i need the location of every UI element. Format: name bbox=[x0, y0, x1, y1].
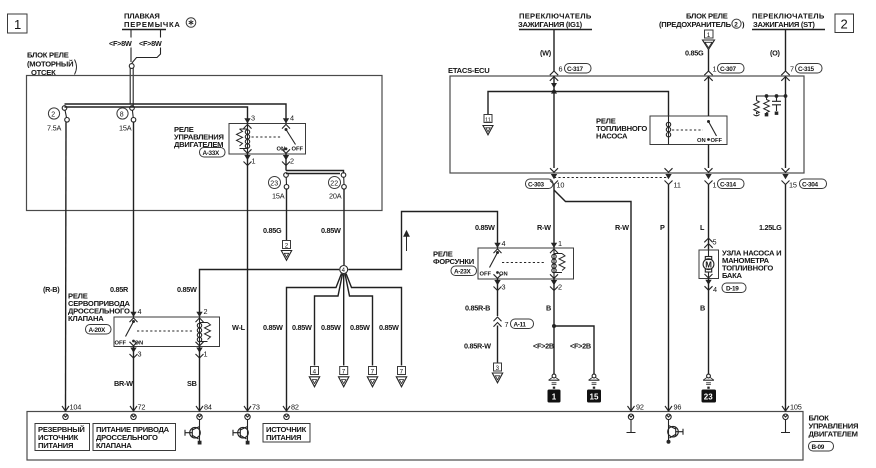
op engine control relay U1 box bbox=[229, 124, 306, 155]
svg-text:3: 3 bbox=[502, 283, 506, 292]
svg-text:OFF: OFF bbox=[292, 147, 304, 153]
pin 6 C-317 bbox=[559, 64, 592, 74]
fuse 23 (15A) bbox=[269, 173, 289, 201]
svg-text:96: 96 bbox=[674, 403, 682, 412]
fuse 1 connector symbol bbox=[703, 30, 715, 50]
svg-text:ПЕРЕМЫЧКА: ПЕРЕМЫЧКА bbox=[124, 20, 181, 29]
wire label 0.85G bbox=[685, 49, 704, 58]
ground ref box 23 bbox=[702, 390, 717, 403]
svg-text:БЛОК РЕЛЕ: БЛОК РЕЛЕ bbox=[27, 51, 69, 60]
resistor R1 (ETACS) bbox=[754, 101, 760, 116]
terminal crossing C-315 into ETACS bbox=[781, 71, 789, 81]
wire fuse bus 23-22 upper bbox=[286, 171, 344, 174]
resistor R2 (ETACS) bbox=[764, 94, 770, 116]
pin 11 label bbox=[674, 181, 681, 190]
wire connector 7 down to triangle 3 (0.85R-W) bbox=[497, 326, 499, 363]
svg-text:105: 105 bbox=[790, 403, 802, 412]
svg-text:92: 92 bbox=[636, 403, 644, 412]
svg-text:M: M bbox=[705, 260, 712, 269]
terminal crossing pin11 out of ETACS bbox=[665, 168, 673, 184]
wire injector pin3 down (0.85R-B) bbox=[497, 279, 499, 316]
svg-text:6: 6 bbox=[559, 65, 563, 74]
svg-text:73: 73 bbox=[252, 403, 260, 412]
svg-text:0.85R: 0.85R bbox=[110, 285, 129, 294]
label relay box fuse 2 bbox=[659, 12, 745, 30]
pin 72 terminal bbox=[130, 403, 145, 420]
connector triangle 7c bbox=[396, 367, 406, 387]
svg-text:0.85W: 0.85W bbox=[263, 323, 283, 332]
page marker 1 bbox=[8, 14, 28, 33]
svg-text:НАСОСА: НАСОСА bbox=[596, 132, 628, 141]
svg-text:1: 1 bbox=[204, 350, 208, 359]
svg-text:R-W: R-W bbox=[537, 223, 551, 232]
svg-text:23: 23 bbox=[704, 393, 713, 402]
label fusible link (ПЛАВКАЯ ПЕРЕМЫЧКА) bbox=[124, 12, 196, 30]
wire C-315 inside ETACS down bbox=[785, 76, 787, 168]
svg-text:15: 15 bbox=[789, 181, 797, 190]
svg-text:P: P bbox=[660, 223, 665, 232]
svg-text:20A: 20A bbox=[329, 192, 342, 201]
svg-text:ETACS-ECU: ETACS-ECU bbox=[448, 66, 490, 75]
svg-text:15A: 15A bbox=[272, 192, 285, 201]
svg-text:8: 8 bbox=[120, 112, 124, 119]
wire ST down to ETACS pin7 C-315 (O) bbox=[785, 30, 787, 72]
terminal pin2 throttle relay bbox=[196, 307, 208, 322]
transistor Q1 (pin 84 driver) bbox=[185, 419, 202, 445]
wire fuse bus 23-22 lower bbox=[286, 173, 340, 175]
label ignition switch ST bbox=[752, 12, 825, 30]
switch engine relay bbox=[277, 128, 304, 153]
terminal pin4 throttle relay bbox=[130, 307, 142, 322]
svg-text:D-19: D-19 bbox=[726, 285, 739, 292]
svg-text:1: 1 bbox=[558, 239, 562, 248]
node dot RC tap bbox=[784, 94, 788, 98]
svg-text:7: 7 bbox=[790, 65, 794, 74]
relay throttle servo box bbox=[114, 317, 220, 347]
svg-text:0.85R-W: 0.85R-W bbox=[464, 342, 491, 351]
svg-text:0.85W: 0.85W bbox=[321, 226, 341, 235]
wire throttle pin1 to pin84 (SB) bbox=[199, 347, 201, 412]
wire fuse to ETACS pin1 C-307 (0.85G) bbox=[708, 50, 710, 72]
relay coil with resistor (engine relay) bbox=[237, 124, 250, 155]
node dot at coil branch bbox=[552, 90, 556, 94]
fuse 22 (20A) bbox=[329, 173, 347, 201]
relay fuel pump box bbox=[650, 116, 727, 145]
connector name A-23X bbox=[451, 266, 477, 276]
connector triangle 7b bbox=[367, 367, 377, 387]
svg-text:ON: ON bbox=[499, 272, 508, 278]
wire label 0.85W row1 bbox=[263, 323, 283, 332]
relay coil fuel pump bbox=[666, 116, 670, 145]
svg-text:3: 3 bbox=[138, 350, 142, 359]
svg-text:0.85W: 0.85W bbox=[350, 323, 370, 332]
svg-text:0.85W: 0.85W bbox=[292, 323, 312, 332]
dashed actuator line injector relay bbox=[502, 262, 546, 264]
svg-text:4: 4 bbox=[313, 368, 317, 375]
wire RC bus bbox=[757, 96, 786, 101]
svg-text:ЗАЖИГАНИЯ (ST): ЗАЖИГАНИЯ (ST) bbox=[753, 20, 815, 29]
wire branch to conn11 and pump relay coil bbox=[488, 92, 669, 117]
svg-text:B: B bbox=[700, 304, 705, 313]
connector name A-20X bbox=[86, 325, 112, 335]
pin 1 C-314 bbox=[713, 179, 745, 190]
wire C-304 down to ECU pin105 (1.25LG) bbox=[785, 185, 787, 412]
wire label F2B a bbox=[533, 342, 554, 351]
wire label P bbox=[660, 223, 665, 232]
label fuel pump relay bbox=[596, 117, 647, 141]
dashed connector linking line bbox=[554, 177, 669, 179]
value label F8W a bbox=[108, 38, 132, 48]
fuse 8 (15A) bbox=[117, 106, 136, 133]
svg-text:1: 1 bbox=[552, 393, 557, 402]
svg-text:C-315: C-315 bbox=[798, 66, 814, 73]
ground ref box 1 bbox=[548, 390, 561, 403]
connector triangle 4 bbox=[309, 367, 319, 387]
switch throttle relay bbox=[115, 320, 144, 347]
fuse 2 (7.5A) bbox=[47, 106, 69, 133]
svg-text:11: 11 bbox=[485, 117, 491, 123]
battery feed bar bbox=[122, 29, 166, 31]
svg-text:5: 5 bbox=[713, 238, 717, 247]
svg-text:0.85W: 0.85W bbox=[177, 285, 197, 294]
svg-text:ДВИГАТЕЛЕМ: ДВИГАТЕЛЕМ bbox=[809, 430, 858, 439]
wire node4 fan to triangle conn 7b bbox=[345, 274, 373, 366]
terminal joint of fusible links bbox=[129, 64, 134, 69]
svg-text:7: 7 bbox=[371, 368, 375, 375]
terminal pin1 injector relay bbox=[550, 239, 562, 253]
terminal pin4 engine relay bbox=[282, 114, 294, 129]
pin 105 terminal bbox=[782, 403, 802, 420]
svg-text:1: 1 bbox=[713, 65, 717, 74]
pin 73 terminal bbox=[244, 403, 260, 420]
svg-text:0.85W: 0.85W bbox=[379, 323, 399, 332]
label fuel pump and gauge unit bbox=[722, 249, 781, 281]
fuel pump and gauge unit bbox=[699, 250, 719, 279]
svg-text:0.85G: 0.85G bbox=[263, 226, 282, 235]
svg-text:C-304: C-304 bbox=[802, 181, 818, 188]
svg-text:10: 10 bbox=[557, 181, 565, 190]
node dot B split bbox=[552, 324, 556, 328]
label engine control unit bbox=[809, 414, 859, 439]
wire node4 fan to pin82 bbox=[287, 274, 342, 412]
ground ref box 15 bbox=[587, 390, 601, 403]
svg-text:A-20X: A-20X bbox=[89, 327, 106, 334]
svg-text:72: 72 bbox=[138, 403, 146, 412]
wire label 0.85W fuse22 bbox=[321, 226, 341, 235]
wire label BR-W bbox=[114, 379, 133, 388]
wire bus upper bbox=[65, 104, 287, 124]
svg-text:2: 2 bbox=[558, 283, 562, 292]
svg-text:B-09: B-09 bbox=[812, 444, 825, 451]
flow arrow up bbox=[404, 231, 409, 251]
svg-text:2: 2 bbox=[51, 112, 55, 119]
svg-text:2: 2 bbox=[841, 17, 848, 32]
svg-text:15A: 15A bbox=[119, 124, 132, 133]
terminal pump unit pin5 bbox=[704, 238, 716, 248]
terminal crossing C-304 out of ETACS bbox=[782, 168, 790, 184]
wire label 0.85W row4 bbox=[350, 323, 370, 332]
label power source bbox=[263, 424, 310, 443]
wire label 0.85W row2 bbox=[292, 323, 312, 332]
wire IG1 down to ETACS pin6 (W) bbox=[553, 30, 555, 72]
wire label 0.85R bbox=[110, 285, 129, 294]
svg-text:КЛАПАНА: КЛАПАНА bbox=[96, 441, 132, 450]
svg-text:ФОРСУНКИ: ФОРСУНКИ bbox=[433, 257, 474, 266]
svg-text:4: 4 bbox=[290, 114, 294, 123]
svg-text:(ПРЕДОХРАНИТЕЛЬ: (ПРЕДОХРАНИТЕЛЬ bbox=[659, 20, 732, 29]
wire label F2B b bbox=[570, 342, 591, 351]
svg-text:2: 2 bbox=[290, 157, 294, 166]
wire node4 fan to triangle conn 4 bbox=[315, 274, 343, 366]
label engine control relay bbox=[174, 125, 224, 149]
svg-text:2: 2 bbox=[285, 242, 289, 249]
terminal pump unit pin4 bbox=[705, 274, 718, 294]
connector name B-09 bbox=[809, 442, 834, 452]
svg-text:A-33X: A-33X bbox=[203, 150, 220, 157]
node 4 junction bbox=[340, 266, 348, 275]
svg-text:A-11: A-11 bbox=[514, 321, 527, 328]
pin 96 terminal bbox=[665, 403, 681, 420]
dashed actuator line fuel pump relay bbox=[672, 129, 703, 131]
svg-text:(W): (W) bbox=[540, 49, 552, 58]
pin 82 terminal bbox=[283, 403, 299, 420]
connector triangle 7a bbox=[339, 367, 349, 387]
label throttle valve servo relay bbox=[68, 292, 131, 324]
pin 92 terminal bbox=[628, 403, 644, 420]
wire label B injector bbox=[546, 304, 551, 313]
svg-text:W-L: W-L bbox=[232, 323, 246, 332]
svg-text:1: 1 bbox=[713, 181, 717, 190]
inline connector 7 A-11 bbox=[494, 317, 534, 329]
wire label 0.85W (injector feed) bbox=[475, 223, 495, 232]
wire fuse2 to pin 104 (R-B) bbox=[65, 122, 68, 411]
transistor Q3 (pin 96 driver) bbox=[667, 419, 684, 444]
terminal pin3 throttle relay bbox=[130, 342, 142, 359]
svg-text:3: 3 bbox=[251, 114, 255, 123]
terminal crossing C-307 into ETACS bbox=[704, 71, 712, 81]
connector triangle 3 bbox=[492, 363, 502, 383]
wire pin10 down to injector relay pin1 (R-W) bbox=[553, 185, 555, 249]
wire injector pin2 down (B) bbox=[553, 279, 555, 374]
svg-text:B: B bbox=[546, 304, 551, 313]
svg-text:104: 104 bbox=[70, 403, 82, 412]
wire label (W) bbox=[540, 49, 552, 58]
switch injector relay bbox=[480, 251, 508, 278]
svg-text:<F>8W: <F>8W bbox=[109, 39, 132, 48]
engine control unit box bbox=[27, 412, 803, 461]
page marker 2 bbox=[835, 14, 854, 33]
stub pin 92 bbox=[627, 419, 636, 433]
wire label 0.85W (throttle feed) bbox=[177, 285, 197, 294]
wire pump relay switch down to pin1 C-314 bbox=[708, 145, 710, 169]
svg-text:ПИТАНИЯ: ПИТАНИЯ bbox=[38, 441, 73, 450]
label injector relay bbox=[433, 250, 474, 267]
wire label R-W b bbox=[615, 223, 629, 232]
relay block (engine compartment) box bbox=[27, 76, 383, 211]
relay coil with resistor (throttle relay) bbox=[197, 317, 210, 347]
terminal pin1 throttle relay bbox=[196, 342, 208, 359]
wire label (R-B) bbox=[43, 285, 60, 294]
relay injector box bbox=[478, 248, 574, 279]
connector name A-33X bbox=[200, 148, 226, 158]
wire node4 left to throttle relay pin2 bbox=[200, 270, 340, 318]
pin 84 terminal bbox=[196, 403, 212, 420]
transistor Q2 (pin 73 driver) bbox=[233, 419, 250, 445]
wire label B pump bbox=[700, 304, 705, 313]
pin 7 C-315 bbox=[790, 64, 822, 74]
wire label (O) bbox=[770, 49, 781, 58]
svg-text:22: 22 bbox=[330, 181, 338, 188]
svg-text:ПИТАНИЯ: ПИТАНИЯ bbox=[266, 433, 301, 442]
wire label R-W a bbox=[537, 223, 551, 232]
wire double lead to bus bbox=[130, 68, 133, 107]
svg-text:7.5A: 7.5A bbox=[47, 124, 62, 133]
terminal crossing C-314 out of ETACS bbox=[705, 168, 713, 184]
pin 1 C-307 bbox=[713, 64, 745, 74]
wire branch pin10 to ECU pin92 (R-W) bbox=[554, 190, 631, 412]
wire engine relay pin2 to fuse bus bbox=[285, 154, 287, 171]
wire label 0.85R-W bbox=[464, 342, 491, 351]
dashed actuator line engine relay bbox=[252, 136, 282, 138]
svg-text:1.25LG: 1.25LG bbox=[759, 223, 782, 232]
connector name D-19 bbox=[722, 283, 746, 293]
terminal pin3 engine relay bbox=[244, 114, 256, 129]
wire label 0.85W row5 bbox=[379, 323, 399, 332]
dashed actuator line throttle relay bbox=[137, 330, 194, 332]
wire bus lower bbox=[65, 107, 248, 124]
label backup power source bbox=[35, 424, 90, 451]
svg-text:82: 82 bbox=[291, 403, 299, 412]
svg-text:(R-B): (R-B) bbox=[43, 285, 60, 294]
pin 10 C-303 bbox=[526, 179, 565, 190]
wire pin11 down to ECU pin96 (P) bbox=[668, 185, 670, 412]
svg-text:0.85R-B: 0.85R-B bbox=[465, 304, 490, 313]
svg-text:4: 4 bbox=[502, 239, 506, 248]
wire fuse8 to throttle relay pin4 (0.85R) bbox=[133, 122, 135, 317]
wire fusible link 2 bbox=[132, 30, 161, 64]
label relay block engine compartment bbox=[27, 51, 77, 78]
wire pin6 inside ETACS down to pin10 bbox=[553, 76, 555, 168]
capacitor C1 (ETACS) bbox=[772, 94, 781, 115]
svg-text:BR-W: BR-W bbox=[114, 379, 133, 388]
svg-text:1: 1 bbox=[707, 32, 711, 39]
wire label L bbox=[700, 223, 705, 232]
connector 2 triangle bbox=[281, 241, 291, 261]
wire engine relay pin1 down (W-L to pin 73) bbox=[247, 154, 249, 412]
wire node4 fan to triangle conn 7c bbox=[346, 274, 402, 366]
svg-text:C-317: C-317 bbox=[567, 66, 583, 73]
svg-text:C-303: C-303 bbox=[528, 181, 544, 188]
svg-text:0.85W: 0.85W bbox=[321, 323, 341, 332]
box ETACS-ECU bbox=[450, 76, 804, 173]
svg-text:<F>2B: <F>2B bbox=[570, 342, 591, 351]
wire node4 center down to triangle conn 7a bbox=[343, 274, 345, 365]
terminal crossing pin10 out of ETACS bbox=[550, 168, 558, 184]
pin 104 terminal bbox=[62, 403, 81, 420]
svg-text:ЗАЖИГАНИЯ (IG1): ЗАЖИГАНИЯ (IG1) bbox=[518, 20, 583, 29]
wire fuse22 to node 4 bbox=[343, 189, 345, 265]
wire label 0.85G fuse23 bbox=[263, 226, 282, 235]
svg-text:0.85G: 0.85G bbox=[685, 49, 704, 58]
svg-text:A-23X: A-23X bbox=[454, 268, 471, 275]
connector 11 triangle (inside ETACS) bbox=[483, 115, 493, 135]
wire pump unit pin4 down (B) bbox=[708, 279, 710, 375]
svg-text:2: 2 bbox=[204, 307, 208, 316]
svg-text:4: 4 bbox=[713, 285, 717, 294]
svg-text:23: 23 bbox=[270, 181, 278, 188]
wire branch to ground 15 bbox=[554, 326, 594, 374]
svg-text:OFF: OFF bbox=[711, 138, 723, 144]
svg-text:КЛАПАНА: КЛАПАНА bbox=[68, 314, 104, 323]
svg-text:1: 1 bbox=[14, 17, 21, 32]
svg-text:3: 3 bbox=[496, 365, 500, 372]
wire label 0.85R-B bbox=[465, 304, 490, 313]
svg-text:R-W: R-W bbox=[615, 223, 629, 232]
terminal pin4 injector relay bbox=[494, 239, 506, 253]
svg-text:ON: ON bbox=[697, 138, 706, 144]
wire label 1.25LG bbox=[759, 223, 782, 232]
svg-text:OFF: OFF bbox=[115, 341, 127, 347]
wire throttle pin3 to pin72 (BR-W) bbox=[133, 347, 135, 412]
label throttle drive power bbox=[93, 424, 176, 451]
stub pin 105 bbox=[781, 419, 790, 433]
svg-text:C-307: C-307 bbox=[720, 66, 736, 73]
wire label SB bbox=[187, 379, 197, 388]
svg-text:2: 2 bbox=[734, 22, 738, 29]
pin 15 C-304 bbox=[789, 179, 827, 190]
svg-text:11: 11 bbox=[674, 181, 681, 190]
svg-text:84: 84 bbox=[204, 403, 212, 412]
switch fuel pump relay bbox=[697, 120, 723, 144]
ground chassis (pump) bbox=[703, 374, 714, 389]
terminal pin1 engine relay bbox=[244, 149, 256, 165]
svg-text:<F>2B: <F>2B bbox=[533, 342, 554, 351]
svg-text:OFF: OFF bbox=[480, 272, 492, 278]
svg-text:15: 15 bbox=[590, 393, 599, 402]
ground chassis (injector B) bbox=[549, 374, 560, 389]
wire node4 right up to injector relay pin4 bbox=[348, 212, 497, 270]
value label F8W b bbox=[138, 38, 162, 48]
svg-text:1: 1 bbox=[252, 157, 256, 166]
terminal crossing pin6 into ETACS bbox=[550, 71, 558, 94]
terminal pin2 injector relay bbox=[550, 274, 562, 291]
wire label 0.85W row3 bbox=[321, 323, 341, 332]
wire label W-L bbox=[232, 323, 246, 332]
svg-text:7: 7 bbox=[400, 368, 404, 375]
svg-text:4: 4 bbox=[138, 307, 142, 316]
terminal pin2 engine relay bbox=[282, 149, 294, 165]
terminal pin3 injector relay bbox=[494, 274, 506, 291]
label ETACS-ECU bbox=[448, 66, 490, 75]
ground chassis (15) bbox=[589, 374, 600, 389]
svg-text:0.85W: 0.85W bbox=[475, 223, 495, 232]
label ignition switch IG1 bbox=[518, 12, 592, 30]
svg-text:<F>8W: <F>8W bbox=[139, 39, 162, 48]
svg-text:7: 7 bbox=[342, 368, 346, 375]
svg-text:7: 7 bbox=[505, 320, 509, 329]
wire C-314 down to pump unit (L) bbox=[708, 185, 710, 251]
wire fusible link 1 bbox=[130, 30, 132, 63]
svg-text:C-314: C-314 bbox=[720, 181, 736, 188]
svg-text:(O): (O) bbox=[770, 49, 781, 58]
relay coil with resistor (injector relay) bbox=[552, 248, 565, 279]
svg-text:БАКА: БАКА bbox=[722, 271, 743, 280]
wire C-307 down to pump relay switch bbox=[708, 76, 710, 116]
wire fuse23 to connector 2 bbox=[286, 189, 288, 241]
svg-text:SB: SB bbox=[187, 379, 197, 388]
